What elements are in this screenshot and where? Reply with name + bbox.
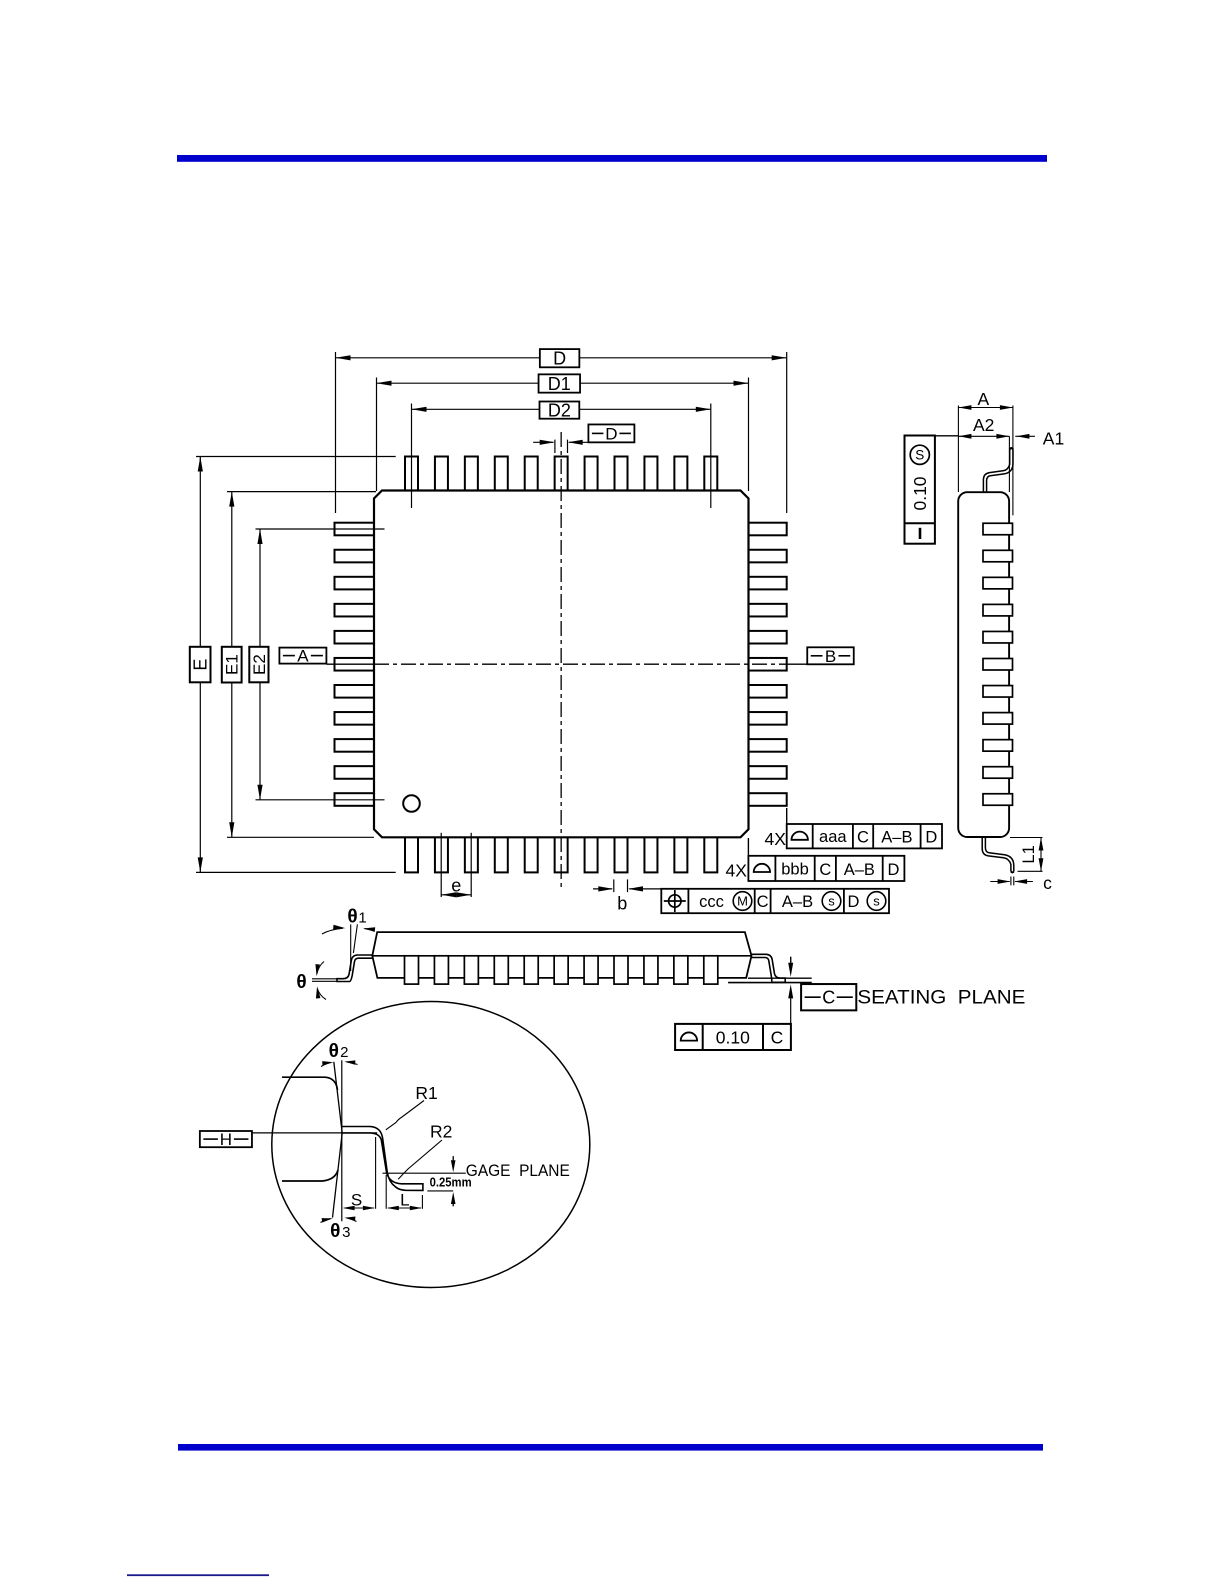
svg-text:c: c bbox=[1043, 873, 1052, 893]
dimension E bbox=[196, 456, 396, 458]
datum label B bbox=[807, 647, 854, 664]
detail body draft edges bbox=[334, 1062, 342, 1133]
svg-text:3: 3 bbox=[342, 1224, 350, 1241]
svg-text:D: D bbox=[605, 424, 617, 443]
svg-text:s: s bbox=[873, 894, 880, 909]
svg-text:0.25mm: 0.25mm bbox=[430, 1176, 472, 1190]
0.25mm dimension bbox=[427, 1190, 453, 1192]
side view top gull lead bbox=[983, 449, 1009, 492]
dimension A1 bbox=[1015, 435, 1035, 437]
svg-text:B: B bbox=[825, 647, 836, 666]
dimension D1 bbox=[376, 378, 378, 492]
detail draft reference vertical bbox=[341, 1060, 343, 1221]
svg-text:E1: E1 bbox=[223, 654, 242, 675]
dimension L1 bbox=[1010, 837, 1043, 839]
svg-text:R1: R1 bbox=[415, 1083, 437, 1103]
top lead row bbox=[405, 457, 717, 492]
dimension S bbox=[375, 1137, 377, 1209]
svg-text:C: C bbox=[819, 861, 831, 879]
straightness tolerance frame bbox=[935, 435, 959, 437]
svg-text:E: E bbox=[191, 659, 211, 671]
svg-text:A1: A1 bbox=[1043, 428, 1064, 448]
seating plane line bbox=[748, 977, 812, 979]
svg-text:R2: R2 bbox=[430, 1122, 452, 1142]
svg-text:θ: θ bbox=[347, 907, 357, 928]
svg-text:E2: E2 bbox=[250, 654, 269, 675]
svg-text:θ: θ bbox=[329, 1041, 339, 1062]
svg-text:4X: 4X bbox=[725, 860, 747, 880]
coplanarity tolerance frame bbox=[675, 1024, 791, 1050]
svg-text:C: C bbox=[757, 893, 769, 911]
svg-text:A–B: A–B bbox=[844, 861, 875, 879]
svg-text:aaa: aaa bbox=[819, 828, 847, 846]
svg-text:e: e bbox=[451, 876, 461, 896]
svg-text:A–B: A–B bbox=[782, 893, 813, 911]
svg-text:D1: D1 bbox=[548, 374, 571, 394]
header rule bbox=[177, 155, 1047, 162]
footer link underline bbox=[127, 1574, 269, 1576]
svg-text:s: s bbox=[828, 894, 835, 909]
dimension b bbox=[613, 879, 615, 892]
svg-text:D2: D2 bbox=[548, 400, 571, 420]
vertical centerline bbox=[560, 432, 562, 889]
datum label H bbox=[200, 1131, 252, 1147]
dimension D2 bbox=[411, 404, 413, 509]
side view bottom gull lead bbox=[982, 837, 1011, 871]
side view lead row bbox=[983, 523, 1013, 805]
detail body outline bbox=[282, 1077, 338, 1090]
arrows to datum D lead bbox=[533, 441, 553, 443]
datum H leader bbox=[252, 1132, 377, 1134]
right lead row bbox=[748, 523, 787, 806]
dimension A bbox=[957, 406, 959, 493]
tolerance frame ccc position bbox=[661, 889, 889, 913]
svg-text:D: D bbox=[925, 829, 937, 847]
coplanarity arrows bbox=[790, 957, 792, 962]
dimension L bbox=[385, 1175, 387, 1209]
label E bbox=[190, 647, 211, 683]
front view right gull lead bbox=[751, 954, 785, 982]
label D1 bbox=[539, 374, 581, 392]
label D2 bbox=[540, 402, 580, 419]
front view left seating extension bbox=[312, 978, 337, 980]
svg-text:2: 2 bbox=[340, 1044, 348, 1061]
datum label C bbox=[801, 984, 856, 1010]
label E2 bbox=[249, 647, 268, 683]
svg-text:θ: θ bbox=[330, 1221, 340, 1242]
label E1 bbox=[222, 647, 242, 683]
svg-text:C: C bbox=[857, 829, 869, 847]
dimension D bbox=[335, 352, 337, 513]
front view parting line bbox=[372, 955, 751, 957]
gage plane line bbox=[383, 1172, 466, 1174]
svg-text:4X: 4X bbox=[764, 829, 786, 849]
front view lead row bbox=[405, 956, 718, 984]
svg-text:C: C bbox=[822, 988, 835, 1008]
dimension e bbox=[440, 833, 442, 897]
side view body bbox=[958, 492, 1009, 837]
package body top view bbox=[374, 491, 749, 838]
svg-text:S: S bbox=[351, 1191, 362, 1210]
svg-text:θ: θ bbox=[296, 972, 306, 993]
footer rule bbox=[178, 1444, 1043, 1451]
svg-text:S: S bbox=[915, 448, 924, 463]
svg-text:D: D bbox=[848, 893, 860, 911]
horizontal centerline bbox=[327, 663, 375, 665]
svg-text:A: A bbox=[978, 389, 990, 409]
dimension E2 bbox=[256, 528, 385, 530]
label D bbox=[540, 349, 580, 367]
front view left gull lead bbox=[337, 955, 373, 982]
dimension c bbox=[1010, 877, 1012, 886]
svg-text:M: M bbox=[737, 894, 748, 909]
svg-text:H: H bbox=[220, 1130, 232, 1149]
svg-text:ccc: ccc bbox=[699, 893, 724, 911]
svg-text:D: D bbox=[553, 349, 566, 369]
svg-text:bbb: bbb bbox=[781, 861, 809, 879]
detail circle bbox=[272, 1002, 590, 1288]
pin 1 index mark bbox=[403, 795, 420, 812]
tolerance frame 4X bbb bbox=[747, 838, 749, 856]
svg-text:A2: A2 bbox=[973, 415, 994, 435]
svg-text:C: C bbox=[771, 1027, 784, 1047]
datum label D bbox=[588, 424, 634, 442]
svg-text:A: A bbox=[297, 647, 309, 666]
svg-text:L: L bbox=[400, 1191, 409, 1210]
lead width ticks (datum D lead) bbox=[554, 440, 556, 453]
dimension A2 bbox=[1008, 436, 1010, 492]
svg-text:b: b bbox=[617, 894, 627, 914]
left lead row bbox=[335, 523, 375, 806]
svg-text:1: 1 bbox=[358, 910, 366, 927]
tolerance frame 4X aaa bbox=[786, 808, 788, 824]
bottom lead row bbox=[405, 837, 717, 873]
svg-text:0.10: 0.10 bbox=[716, 1027, 750, 1047]
detail lead profile bbox=[342, 1127, 423, 1191]
svg-text:A–B: A–B bbox=[881, 829, 912, 847]
dimension E1 bbox=[227, 491, 376, 493]
svg-text:GAGE PLANE: GAGE PLANE bbox=[466, 1161, 570, 1180]
datum label A bbox=[279, 648, 326, 664]
front view body bbox=[372, 932, 751, 978]
svg-text:D: D bbox=[888, 861, 900, 879]
svg-text:SEATING PLANE: SEATING PLANE bbox=[857, 987, 1025, 1009]
svg-text:0.10: 0.10 bbox=[910, 476, 930, 510]
svg-text:L1: L1 bbox=[1020, 845, 1038, 863]
